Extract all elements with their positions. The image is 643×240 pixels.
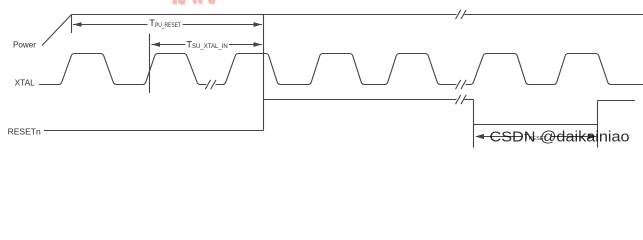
wire RESETn high tail <box>598 100 636 102</box>
arrowhead right T_SU_XTAL_IN <box>254 42 263 47</box>
wire power ramp diagonal <box>42 15 72 46</box>
wire XTAL clock pulses between breaks <box>216 54 457 85</box>
svg-text:TPU_RESET: TPU_RESET <box>149 18 181 29</box>
svg-text:XTAL: XTAL <box>15 78 36 88</box>
wire RESETn high after release, left of break <box>264 99 457 101</box>
svg-text:Power: Power <box>13 39 36 49</box>
break symbol on power rail <box>456 10 467 19</box>
arrowhead left T_SU_XTAL_IN <box>152 42 161 47</box>
wire dimension line T_PU_RESET <box>73 24 262 26</box>
wire RESETn high right of break <box>465 99 474 101</box>
wire dimension line T_SU_XTAL_IN <box>152 44 263 46</box>
node marker line at first stable XTAL edge <box>149 34 151 94</box>
arrowhead left T_RESET <box>475 134 484 139</box>
arrowhead left T_PU_RESET <box>73 22 82 27</box>
break symbol on XTAL low line (right) <box>456 80 467 89</box>
wire RESETn falling edge / left marker of T_RESET <box>473 100 475 148</box>
wire RESETn low before release <box>44 130 264 132</box>
arrowhead right T_PU_RESET <box>254 22 263 27</box>
wire RESETn rising edge / right marker of T_RESET <box>597 101 599 148</box>
wire XTAL clock pulses after second break <box>466 54 643 85</box>
wire power rail right of break <box>465 14 643 16</box>
break symbol on RESETn high line <box>456 95 467 104</box>
break symbol on XTAL low line (left) <box>205 80 216 89</box>
arrowhead right T_RESET <box>588 134 597 139</box>
svg-text:RESETn: RESETn <box>8 126 41 136</box>
svg-text:CSDN @daikainiao: CSDN @daikainiao <box>490 130 630 146</box>
node marker line at reset release (spans power rail to RESETn) <box>263 15 265 131</box>
wire power rail left of break <box>72 14 457 16</box>
wire RESETn low pulse <box>474 124 598 126</box>
svg-text:TSU_XTAL_IN: TSU_XTAL_IN <box>186 39 228 50</box>
node tick at power-good (start of T_PU_RESET) <box>71 15 73 34</box>
red watermark fragment (cropped characters, top edge) <box>173 0 216 5</box>
wire dimension line T_RESET <box>477 136 597 138</box>
wire XTAL clock pulses before first break <box>39 54 206 85</box>
